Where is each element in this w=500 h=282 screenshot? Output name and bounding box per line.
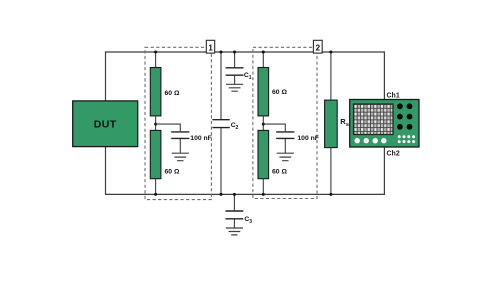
capacitor 100nF box2 xyxy=(276,132,319,142)
wire box1 resistor top xyxy=(155,52,157,68)
svg-text:2: 2 xyxy=(236,125,239,131)
label Ch1 xyxy=(387,93,400,100)
node C3 top xyxy=(233,193,236,196)
wire Rs top xyxy=(330,52,332,100)
node box2 middle xyxy=(262,123,265,126)
wire box1 middle xyxy=(155,116,157,130)
wire Rs bottom xyxy=(330,148,332,195)
wire box2 cap to ground xyxy=(284,139,286,153)
oscilloscope screen xyxy=(354,104,394,135)
wire box2 resistor bottom xyxy=(262,179,264,195)
oscilloscope small buttons xyxy=(398,135,415,143)
wire box2 resistor top xyxy=(262,52,264,68)
svg-text:DUT: DUT xyxy=(94,119,117,131)
node C2 bottom xyxy=(220,193,223,196)
svg-text:60 Ω: 60 Ω xyxy=(272,168,287,175)
capacitor C3 xyxy=(225,211,252,225)
ground C1 xyxy=(226,84,243,91)
node Rs top xyxy=(329,51,332,54)
wire top rail xyxy=(106,51,385,53)
wire box2 cap branch xyxy=(263,124,285,131)
wire DUT top xyxy=(105,51,107,101)
tag 1 xyxy=(206,40,214,53)
svg-text:1: 1 xyxy=(208,43,213,52)
wire C2 line lower xyxy=(220,128,222,194)
svg-text:100 nF: 100 nF xyxy=(190,135,212,142)
ground box2 xyxy=(277,153,294,161)
node box2 bottom xyxy=(262,193,265,196)
dashed network box 1 xyxy=(145,47,211,199)
node C1 top xyxy=(233,51,236,54)
resistor 60ohm box2 upper xyxy=(258,68,287,116)
node box1 top xyxy=(154,51,157,54)
node box1 middle xyxy=(154,123,157,126)
wire C1 branch xyxy=(234,52,236,67)
wire box1 cap to ground xyxy=(179,139,181,153)
resistor 60ohm box1 lower xyxy=(150,130,180,178)
node box1 bottom xyxy=(154,193,157,196)
wire box1 cap branch xyxy=(156,124,181,131)
svg-text:s: s xyxy=(346,122,349,128)
oscilloscope knobs xyxy=(397,103,412,129)
wire Ch2 xyxy=(383,147,385,195)
oscilloscope body xyxy=(350,100,419,148)
dashed network box 2 xyxy=(253,47,317,198)
resistor Rs xyxy=(325,100,349,148)
wire box2 middle xyxy=(262,116,264,130)
resistor 60ohm box1 upper xyxy=(150,68,180,116)
capacitor C2 xyxy=(212,120,238,131)
wire C2 line upper xyxy=(220,52,222,119)
wire C3 branch xyxy=(233,194,235,210)
wire C1 to ground xyxy=(234,76,236,85)
DUT block xyxy=(73,101,138,147)
svg-text:60 Ω: 60 Ω xyxy=(165,168,180,175)
wire C3 to ground xyxy=(233,219,235,228)
svg-text:60 Ω: 60 Ω xyxy=(165,90,180,97)
node box2 top xyxy=(262,51,265,54)
svg-text:3: 3 xyxy=(249,219,252,225)
tag 2 xyxy=(313,40,322,53)
label Ch2 xyxy=(387,151,400,158)
svg-text:2: 2 xyxy=(316,43,321,52)
capacitor C1 xyxy=(226,68,252,81)
svg-text:Ch1: Ch1 xyxy=(387,93,400,100)
svg-text:1: 1 xyxy=(249,75,252,81)
svg-text:Ch2: Ch2 xyxy=(387,151,400,158)
wire box1 resistor bottom xyxy=(155,179,157,195)
node Rs bottom xyxy=(329,193,332,196)
resistor 60ohm box2 lower xyxy=(258,130,287,178)
ground box1 xyxy=(172,153,189,161)
wire DUT bottom xyxy=(105,147,107,196)
wire bottom rail xyxy=(106,193,385,195)
oscilloscope buttons xyxy=(355,138,387,143)
wire Ch1 xyxy=(383,51,385,99)
capacitor 100nF box1 xyxy=(171,132,212,142)
svg-text:100 nF: 100 nF xyxy=(297,135,319,142)
svg-text:60 Ω: 60 Ω xyxy=(272,89,287,96)
ground C3 xyxy=(226,228,243,235)
node C2 top xyxy=(220,51,223,54)
